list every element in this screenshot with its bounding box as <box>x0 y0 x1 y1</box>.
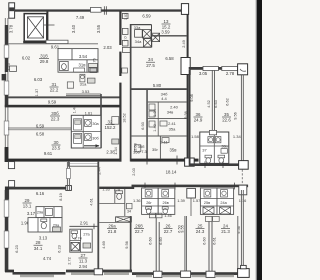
svg-text:6.63: 6.63 <box>213 100 218 108</box>
svg-text:2.72: 2.72 <box>66 257 71 265</box>
svg-text:30б: 30б <box>92 136 99 140</box>
svg-text:1.33: 1.33 <box>102 187 109 191</box>
washer left <box>208 137 214 143</box>
corner notch <box>9 181 15 187</box>
svg-text:3.17: 3.17 <box>27 211 36 216</box>
svg-text:1.37: 1.37 <box>35 89 39 96</box>
svg-text:2.91: 2.91 <box>80 220 89 225</box>
svg-text:9.61: 9.61 <box>44 151 53 156</box>
box right of 29a <box>53 227 61 232</box>
divider double wall x210 <box>209 222 212 271</box>
svg-text:35: 35 <box>224 112 229 117</box>
svg-text:13.1: 13.1 <box>23 204 32 209</box>
right wing window 1 <box>203 66 218 70</box>
washer cluster3 <box>204 190 211 197</box>
wall y203 <box>99 202 125 204</box>
room 25 label <box>196 224 205 235</box>
svg-text:6.02: 6.02 <box>22 55 31 60</box>
wall x124.8 vertical <box>124 189 126 216</box>
svg-text:13: 13 <box>164 19 169 24</box>
svg-text:24.3: 24.3 <box>196 229 205 234</box>
svg-text:4.74: 4.74 <box>43 256 52 261</box>
svg-text:152.2: 152.2 <box>105 125 117 130</box>
svg-text:34в: 34в <box>167 110 174 115</box>
svg-text:1.16: 1.16 <box>239 198 247 203</box>
wall x98 apartment divider <box>97 162 99 273</box>
svg-text:1.03: 1.03 <box>124 13 128 20</box>
svg-text:2.94: 2.94 <box>79 264 88 269</box>
window box on hall line <box>46 40 68 43</box>
tick crosses bottom wall right wing <box>205 161 223 168</box>
bathroom cluster 31v outline <box>58 49 98 73</box>
toilet apt26 entry <box>116 191 123 200</box>
svg-text:6.59: 6.59 <box>36 123 45 128</box>
bottom wall middle column <box>131 159 199 162</box>
window band r4 <box>216 275 234 277</box>
svg-text:6.60: 6.60 <box>158 236 163 244</box>
wall x191 short <box>190 198 192 216</box>
svg-text:2.11: 2.11 <box>160 139 168 144</box>
svg-text:29: 29 <box>25 198 30 203</box>
wall x237.8 <box>237 216 239 270</box>
bottom wall left step <box>5 270 14 273</box>
hall line under elevator <box>8 43 98 45</box>
svg-text:2.03: 2.03 <box>131 168 136 176</box>
wall x101 vertical <box>100 94 102 148</box>
fixture sink pair in 31v <box>89 63 98 71</box>
svg-text:25: 25 <box>198 224 203 229</box>
cluster top box <box>209 130 216 134</box>
left wall dark segment 1 <box>5 25 8 45</box>
svg-text:1.34: 1.34 <box>233 134 242 139</box>
toilet left <box>205 155 212 163</box>
window band mid1 <box>71 272 94 275</box>
right wing bath cluster <box>200 132 229 163</box>
wall x158 vertical <box>157 102 159 136</box>
wall y97 <box>8 96 121 98</box>
svg-text:31: 31 <box>52 82 57 87</box>
right wing divider wall <box>212 70 214 132</box>
wardrobe X box 3 <box>143 39 151 47</box>
svg-text:6.03: 6.03 <box>34 77 43 82</box>
corridor label 32 <box>105 120 117 131</box>
svg-text:31в: 31в <box>79 63 87 68</box>
svg-text:6.23: 6.23 <box>14 245 19 253</box>
wall x160 <box>159 136 161 159</box>
image right border bar <box>257 0 263 280</box>
wardrobe X box 2 <box>151 33 159 41</box>
dashed opening right side <box>241 170 243 186</box>
bottom right pier <box>238 265 250 277</box>
svg-text:3.54: 3.54 <box>79 54 88 59</box>
svg-text:6.62: 6.62 <box>225 98 230 106</box>
room 31b label <box>39 54 49 65</box>
room 26 label <box>164 224 173 235</box>
svg-text:22.6: 22.6 <box>222 118 231 123</box>
wall y226 <box>69 225 97 227</box>
fixture box 30 cluster a <box>74 119 82 130</box>
svg-text:9.56: 9.56 <box>232 112 237 120</box>
svg-text:36: 36 <box>196 112 201 117</box>
wall right of room 33a <box>131 25 152 48</box>
svg-text:35в: 35в <box>170 148 178 153</box>
svg-text:31б: 31б <box>40 54 48 59</box>
lower-left corner post <box>5 187 9 200</box>
box top 31a row <box>74 68 97 73</box>
svg-text:3.78: 3.78 <box>9 24 14 33</box>
svg-text:27.5: 27.5 <box>146 63 155 68</box>
middle right wall x187.5 <box>187 11 189 162</box>
svg-text:35а: 35а <box>169 126 176 131</box>
window band r3 <box>192 275 206 277</box>
elevator shaft outer <box>24 14 47 42</box>
small boxes on divider top 2 <box>205 216 219 221</box>
svg-text:34: 34 <box>148 57 153 62</box>
room 30b label <box>50 111 60 122</box>
small box left wall <box>10 66 17 71</box>
right wing window 2 <box>222 66 238 70</box>
svg-text:23.5: 23.5 <box>52 146 61 151</box>
svg-text:26в: 26в <box>162 201 168 205</box>
top-left pier dark connector <box>9 7 14 11</box>
room 36 label <box>194 112 203 123</box>
svg-text:1.46: 1.46 <box>164 214 171 218</box>
wall x147 vertical <box>146 90 148 162</box>
cluster 29 upper row <box>36 207 62 218</box>
svg-text:7.3: 7.3 <box>141 149 147 154</box>
fixture WC in 31v <box>60 61 69 70</box>
svg-text:18.14: 18.14 <box>166 170 177 175</box>
tick mark on top wall <box>104 6 106 15</box>
room 35 label <box>222 112 231 123</box>
bath cluster row box 4 <box>217 188 234 214</box>
door arrow <box>84 145 99 147</box>
right wall of upper-left block <box>119 11 121 162</box>
svg-text:25в: 25в <box>204 201 210 205</box>
bottom window band left <box>20 275 54 278</box>
svg-text:6.60: 6.60 <box>148 236 153 244</box>
cluster 29 lower row <box>28 218 62 232</box>
right wing left wall <box>189 70 191 166</box>
svg-text:5.80: 5.80 <box>153 83 162 88</box>
room 35b label <box>138 144 148 154</box>
lower block top wall left part <box>9 187 68 190</box>
svg-text:1.57: 1.57 <box>193 198 201 203</box>
svg-text:2.03: 2.03 <box>103 45 112 50</box>
svg-text:9.56: 9.56 <box>183 111 188 119</box>
svg-text:9.59: 9.59 <box>48 99 57 104</box>
svg-text:21.8: 21.8 <box>108 229 117 234</box>
svg-text:31а: 31а <box>80 81 87 86</box>
toilet 29b <box>41 219 47 229</box>
svg-text:22.7: 22.7 <box>135 229 144 234</box>
left wall dark segment 3 <box>5 95 8 107</box>
svg-text:26г: 26г <box>146 201 152 205</box>
lower-left dark segment 3 <box>5 248 8 272</box>
bath cluster row box 3 <box>200 188 217 214</box>
room 29 label <box>23 198 32 209</box>
svg-text:6.60: 6.60 <box>201 236 206 244</box>
svg-text:1.36: 1.36 <box>133 198 141 203</box>
pier bottom x157 <box>153 271 162 277</box>
divider double wall x157 <box>156 218 159 271</box>
lower-left window 2 <box>4 231 9 248</box>
wardrobe X cluster4 <box>220 207 231 214</box>
elevator shaft inner <box>27 17 43 38</box>
wall y105 <box>5 105 122 108</box>
dim 2.11 + 35g <box>152 139 168 152</box>
svg-text:9.55: 9.55 <box>180 225 185 233</box>
svg-text:2.38: 2.38 <box>106 149 115 154</box>
shaft boxes left column <box>122 13 130 52</box>
svg-text:30: 30 <box>54 140 59 145</box>
svg-text:32: 32 <box>108 120 113 125</box>
room 24 label <box>221 224 230 235</box>
wall below elevator <box>23 41 48 43</box>
svg-text:1.48: 1.48 <box>73 106 77 113</box>
bottom wall right half <box>132 272 248 275</box>
wall notch lower-left <box>8 162 14 169</box>
svg-text:3.05: 3.05 <box>199 71 208 76</box>
wardrobe dark box apt26 <box>116 217 132 222</box>
wall y222 apt26 <box>99 221 131 223</box>
lower-left outer wall <box>5 190 8 271</box>
svg-text:22.2: 22.2 <box>50 88 59 93</box>
hall wall y94.5 <box>66 94 101 96</box>
wall right of elevator <box>46 12 48 42</box>
pier on bottom wall <box>185 158 195 166</box>
svg-text:35г: 35г <box>152 147 158 152</box>
protrusion wall x68 <box>67 162 69 190</box>
cluster 27a outline <box>70 229 92 252</box>
toilet 27g <box>71 231 77 239</box>
svg-text:8.19: 8.19 <box>58 193 63 201</box>
divider wall x185.5 <box>185 216 187 271</box>
svg-text:4.61: 4.61 <box>88 198 93 206</box>
svg-text:18.52: 18.52 <box>122 113 126 123</box>
left wall window 1 <box>4 45 9 58</box>
wardrobe X box 27 <box>71 242 79 250</box>
tick on wall y226 <box>93 224 95 230</box>
toilet right <box>218 155 225 163</box>
wall x130.5 lower <box>130 216 132 272</box>
svg-text:3.40: 3.40 <box>71 24 76 33</box>
svg-text:22.3: 22.3 <box>51 117 60 122</box>
svg-text:37: 37 <box>202 147 207 152</box>
lower top wall mid part <box>99 187 134 189</box>
svg-text:6.93: 6.93 <box>140 122 145 130</box>
wardrobe X cluster3 <box>203 207 214 214</box>
svg-text:34а: 34а <box>135 39 142 44</box>
svg-text:9.56: 9.56 <box>124 241 129 249</box>
bath cluster row box 2 <box>158 188 175 214</box>
svg-text:34.1: 34.1 <box>34 246 43 251</box>
svg-text:29в: 29в <box>37 210 43 214</box>
svg-text:24: 24 <box>223 224 228 229</box>
box 43a <box>87 78 95 83</box>
elevator X <box>27 17 43 38</box>
svg-text:2.74: 2.74 <box>74 237 81 241</box>
top-right pier <box>238 64 248 75</box>
svg-text:6.61: 6.61 <box>211 237 216 245</box>
bottom wall mid <box>66 270 132 273</box>
top outer wall <box>15 9 187 11</box>
svg-text:6.23: 6.23 <box>57 245 62 253</box>
tick crosses on lower top wall <box>145 183 235 190</box>
svg-text:29.8: 29.8 <box>40 59 49 64</box>
svg-text:3.59: 3.59 <box>161 29 170 34</box>
dim 2.41 + 35a <box>168 121 177 131</box>
lower-left window 1 <box>4 200 9 217</box>
sink box 27 <box>83 243 91 248</box>
pier mid x184 <box>181 58 190 75</box>
box 31a left <box>67 82 73 88</box>
svg-text:21.3: 21.3 <box>221 229 230 234</box>
boiler 31a <box>80 74 85 82</box>
door gap 2 in right wall <box>119 76 122 83</box>
svg-text:3.55: 3.55 <box>96 24 101 33</box>
bottom wall left run <box>13 272 66 275</box>
small box 38a <box>221 149 227 154</box>
window band r2 <box>163 275 180 277</box>
svg-text:11.3: 11.3 <box>79 259 88 264</box>
left wall dark segment 2 <box>5 58 8 72</box>
small boxes on divider top 1 <box>149 213 162 218</box>
right wing bottom pier <box>239 161 249 170</box>
tick marks on bottom wall <box>147 156 177 165</box>
washer cluster2 <box>162 190 169 197</box>
svg-text:34: 34 <box>127 209 131 213</box>
washer right <box>215 137 221 143</box>
label 27a + dim <box>74 232 90 240</box>
left wall window 3 <box>4 121 9 135</box>
wall y102 <box>148 101 187 103</box>
wall y128 <box>8 128 71 130</box>
svg-text:27: 27 <box>81 253 86 258</box>
svg-text:28: 28 <box>36 240 41 245</box>
wardrobe box plain <box>135 30 143 38</box>
bottom wall upper-left block <box>5 159 122 162</box>
fixtures 35g <box>162 138 169 143</box>
svg-text:3.53: 3.53 <box>82 89 91 94</box>
bathroom cluster 30 outline <box>71 115 101 148</box>
left wall foot <box>5 147 9 162</box>
dim 4.4 + room 34b <box>161 92 168 102</box>
fixture boxes on corridor wall <box>112 117 119 144</box>
toilet cluster1 <box>146 207 152 214</box>
svg-text:24а: 24а <box>220 201 227 205</box>
room 13 label <box>162 19 171 30</box>
top-left window pier <box>9 3 15 18</box>
svg-text:1.58: 1.58 <box>191 134 200 139</box>
room 26b label <box>134 224 144 235</box>
svg-text:4.4: 4.4 <box>161 96 167 101</box>
window band mid2 <box>104 272 129 275</box>
svg-text:9.56: 9.56 <box>236 226 241 234</box>
left outer wall double line <box>5 18 8 161</box>
protrusion window <box>66 169 70 179</box>
svg-text:6.59: 6.59 <box>142 14 151 19</box>
bath cluster row box 1 <box>142 188 159 214</box>
balcony window box <box>69 161 99 166</box>
room 28 label <box>34 240 43 251</box>
window on top wall <box>91 7 102 12</box>
wall under 3.59 <box>152 35 187 37</box>
wall y136 <box>131 135 187 137</box>
svg-text:6.58: 6.58 <box>36 131 45 136</box>
svg-text:6.16: 6.16 <box>36 191 45 196</box>
door gap 1 in right wall <box>119 45 122 52</box>
pier top x184 <box>181 4 188 15</box>
svg-text:4.69: 4.69 <box>101 241 106 249</box>
room 31 label <box>50 82 59 93</box>
svg-text:24.9: 24.9 <box>194 118 203 123</box>
pier bottom x96 <box>94 269 102 275</box>
svg-text:7.0: 7.0 <box>124 36 128 41</box>
wall top of room 33a <box>130 24 152 26</box>
corridor wall x130.5 <box>130 24 132 162</box>
sink box apt26 <box>126 203 132 208</box>
left wall dark segment 4 <box>5 148 8 162</box>
pier bottom x210 <box>206 271 215 277</box>
room 26a label <box>107 224 117 235</box>
room 27 label <box>79 253 88 264</box>
lower block top wall right part <box>132 185 249 188</box>
lower-left dark segment 1 <box>5 190 8 200</box>
fixture washer 30a <box>85 119 92 126</box>
small fixtures 35a <box>149 121 167 127</box>
pier below cluster2 <box>187 188 196 198</box>
svg-text:38а: 38а <box>221 145 228 149</box>
pier right of cluster4 <box>239 185 247 195</box>
pier bottom x185 <box>181 271 191 277</box>
wall y118 <box>148 118 187 120</box>
washer cluster1 <box>145 190 152 197</box>
svg-text:30б: 30б <box>51 111 59 116</box>
svg-text:27а: 27а <box>83 232 90 236</box>
toilet cluster2 <box>162 207 168 214</box>
room 34 label <box>146 57 155 68</box>
wall y89 <box>131 88 187 90</box>
wall x114.8 short <box>114 189 116 203</box>
svg-text:6.58: 6.58 <box>165 56 174 61</box>
lower-left dark segment 2 <box>5 217 8 231</box>
svg-text:26: 26 <box>166 224 171 229</box>
fixture box 30 cluster b <box>74 133 82 143</box>
svg-text:2.78: 2.78 <box>226 71 235 76</box>
small fixtures 34v <box>149 104 155 117</box>
room 30 label <box>52 140 61 151</box>
svg-text:26а: 26а <box>108 224 116 229</box>
svg-text:26б: 26б <box>135 224 143 229</box>
elevator door mark <box>44 24 55 26</box>
svg-text:22.7: 22.7 <box>164 229 173 234</box>
dim 2.40 + 34v <box>167 105 179 115</box>
wardrobe X box 1 <box>143 30 151 38</box>
fixture near corridor top <box>122 68 128 73</box>
svg-text:4.52: 4.52 <box>206 100 211 108</box>
svg-text:7.49: 7.49 <box>76 15 85 20</box>
svg-text:1.25: 1.25 <box>6 62 11 71</box>
washer cluster4 <box>221 190 228 197</box>
right wall lower continues <box>241 190 243 270</box>
right wing top wall <box>189 67 248 70</box>
fixture washer 30b <box>85 134 92 141</box>
right wing right wall <box>241 75 243 166</box>
window band r1 <box>136 275 152 277</box>
right wing bottom wall <box>191 163 239 166</box>
svg-text:1.39: 1.39 <box>177 198 185 203</box>
